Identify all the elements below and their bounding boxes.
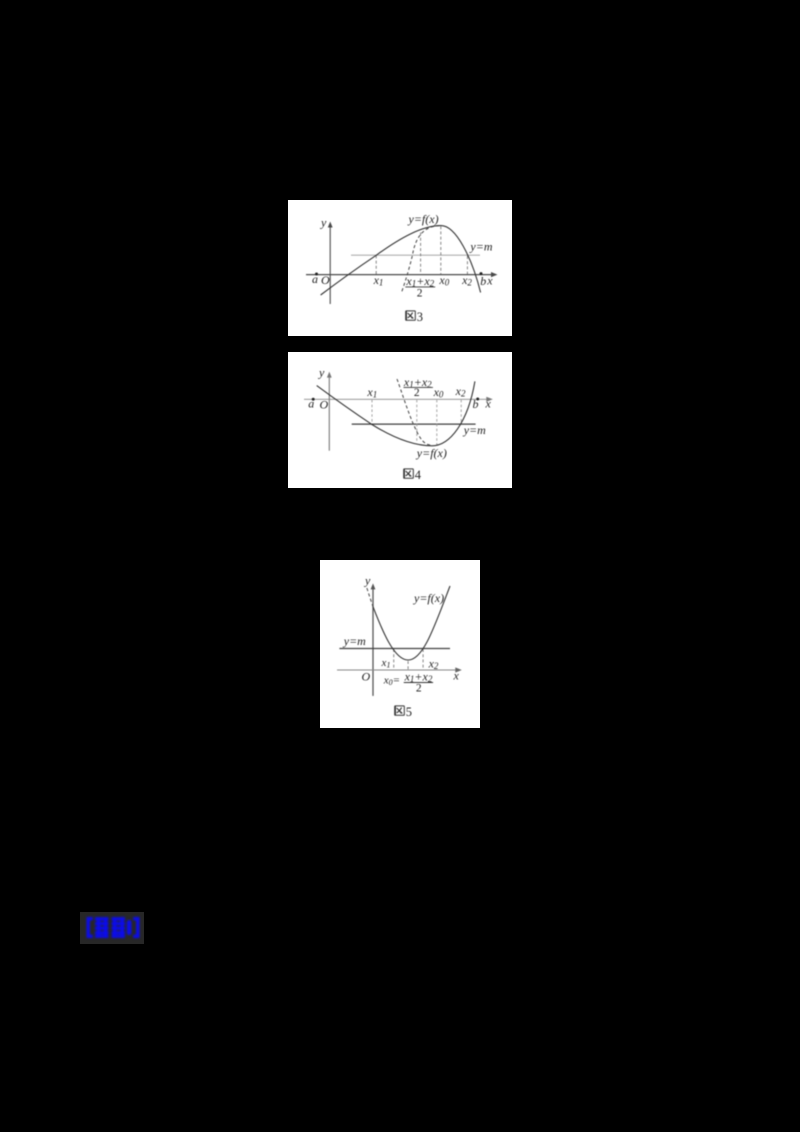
svg-text:x1: x1 xyxy=(381,657,391,670)
svg-text:O: O xyxy=(320,398,329,412)
svg-text:y=f(x): y=f(x) xyxy=(416,446,447,460)
svg-text:x1+x2: x1+x2 xyxy=(405,274,434,289)
svg-text:y: y xyxy=(364,574,371,588)
svg-text:b: b xyxy=(473,397,479,411)
svg-text:x0=: x0= xyxy=(383,675,400,688)
svg-text:x: x xyxy=(486,274,493,288)
svg-text:y=m: y=m xyxy=(463,423,486,437)
svg-text:5: 5 xyxy=(406,705,412,719)
svg-text:a: a xyxy=(308,397,314,411)
svg-text:y: y xyxy=(318,366,325,380)
svg-text:y=f(x): y=f(x) xyxy=(413,591,444,605)
svg-text:y=f(x): y=f(x) xyxy=(408,212,439,226)
svg-text:O: O xyxy=(362,670,371,684)
svg-text:x: x xyxy=(485,397,492,411)
svg-text:x1: x1 xyxy=(366,385,377,400)
svg-text:2: 2 xyxy=(416,683,422,695)
svg-text:x: x xyxy=(453,668,460,682)
svg-text:y: y xyxy=(320,216,327,230)
svg-text:y=m: y=m xyxy=(469,240,492,254)
svg-text:x2: x2 xyxy=(455,384,466,399)
svg-text:x0: x0 xyxy=(433,385,444,400)
svg-text:O: O xyxy=(321,273,330,287)
svg-text:2: 2 xyxy=(417,288,423,300)
svg-text:2: 2 xyxy=(414,387,420,399)
svg-text:4: 4 xyxy=(415,468,422,482)
svg-text:x2: x2 xyxy=(428,657,439,672)
svg-text:3: 3 xyxy=(417,310,423,324)
svg-text:y=m: y=m xyxy=(343,634,366,648)
svg-text:b: b xyxy=(480,274,486,288)
svg-text:a: a xyxy=(312,272,318,286)
